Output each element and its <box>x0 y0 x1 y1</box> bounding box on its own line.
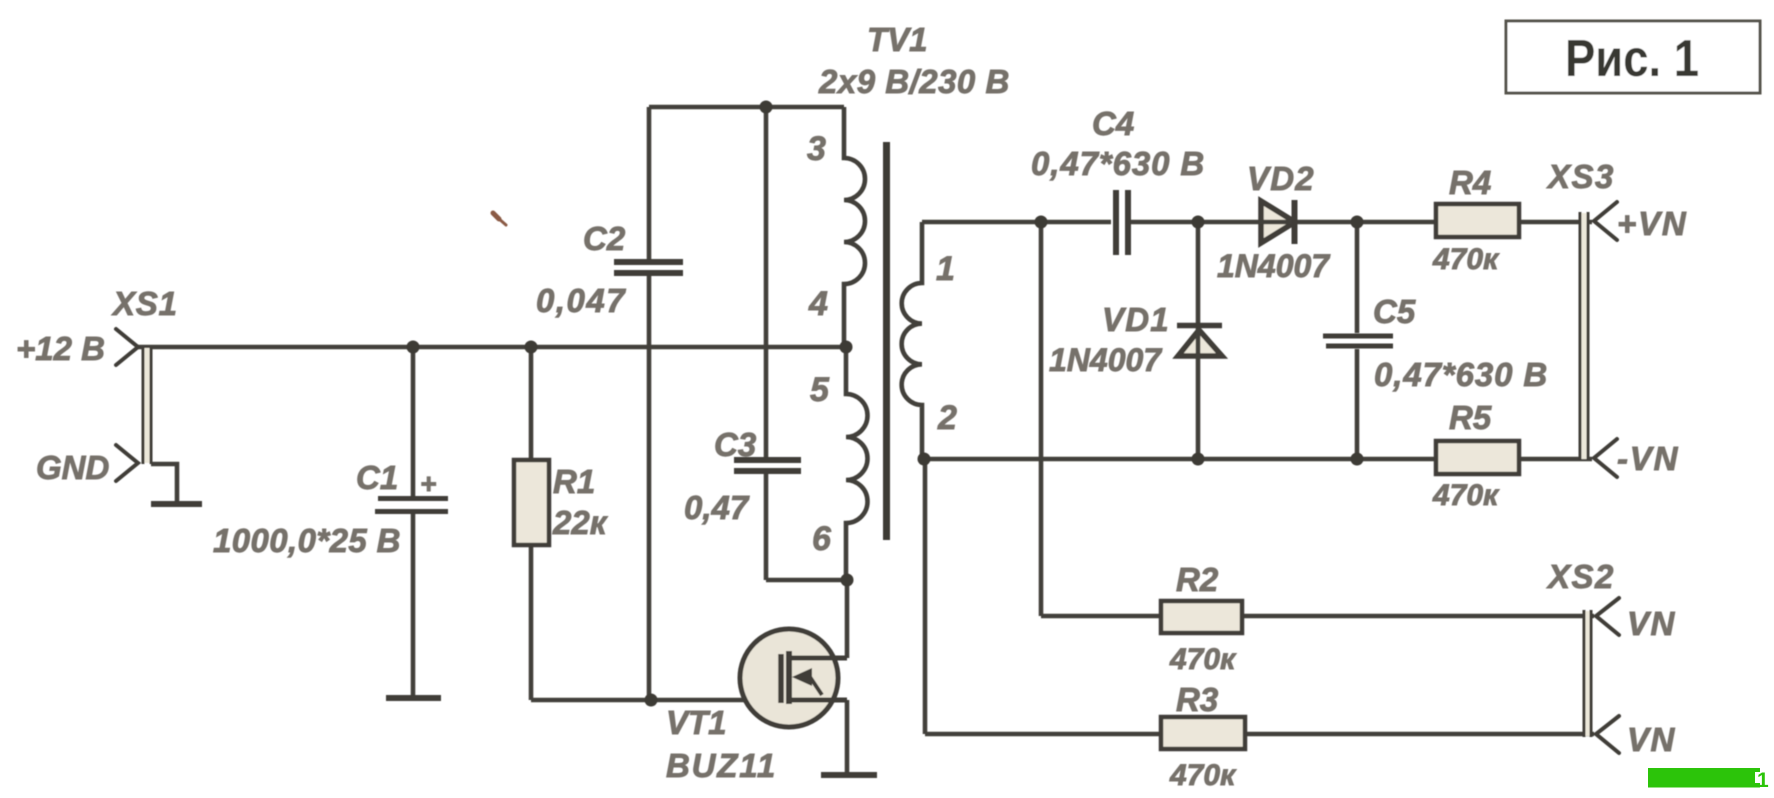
svg-text:2x9 В/230 В: 2x9 В/230 В <box>818 63 1010 100</box>
svg-text:470к: 470к <box>1169 759 1237 792</box>
svg-text:VD1: VD1 <box>1102 301 1170 338</box>
svg-text:2: 2 <box>937 399 957 437</box>
svg-text:5: 5 <box>810 371 830 409</box>
svg-text:1N4007: 1N4007 <box>1217 248 1331 284</box>
svg-text:0,047: 0,047 <box>536 282 626 319</box>
svg-text:XS1: XS1 <box>111 285 178 322</box>
svg-text:1N4007: 1N4007 <box>1049 342 1163 378</box>
svg-text:3: 3 <box>807 130 826 168</box>
svg-text:C1: C1 <box>356 459 398 496</box>
svg-text:C5: C5 <box>1373 293 1416 330</box>
svg-text:1: 1 <box>1757 769 1769 792</box>
svg-text:TV1: TV1 <box>867 21 928 58</box>
svg-text:Рис. 1: Рис. 1 <box>1565 30 1699 88</box>
svg-text:6: 6 <box>812 520 832 558</box>
svg-text:C2: C2 <box>583 220 626 257</box>
svg-text:XS3: XS3 <box>1546 158 1615 195</box>
svg-text:VN: VN <box>1627 721 1676 758</box>
svg-text:BUZ11: BUZ11 <box>666 747 777 784</box>
svg-text:1000,0*25 В: 1000,0*25 В <box>213 522 401 559</box>
svg-text:VN: VN <box>1627 605 1676 642</box>
svg-text:1: 1 <box>936 250 955 288</box>
svg-text:-VN: -VN <box>1617 440 1679 477</box>
svg-text:+: + <box>420 468 436 499</box>
svg-text:R3: R3 <box>1176 681 1218 718</box>
svg-text:+VN: +VN <box>1617 205 1688 242</box>
svg-text:GND: GND <box>36 449 109 486</box>
svg-text:VT1: VT1 <box>666 704 727 741</box>
svg-text:470к: 470к <box>1432 243 1500 276</box>
svg-text:0,47: 0,47 <box>684 489 750 526</box>
svg-text:C3: C3 <box>714 426 756 463</box>
svg-text:VD2: VD2 <box>1247 160 1315 197</box>
svg-text:470к: 470к <box>1432 479 1500 512</box>
svg-text:0,47*630 В: 0,47*630 В <box>1374 356 1548 393</box>
svg-text:XS2: XS2 <box>1546 558 1615 595</box>
svg-text:4: 4 <box>808 285 828 323</box>
svg-text:C4: C4 <box>1092 105 1134 142</box>
svg-text:+12 В: +12 В <box>16 330 105 367</box>
svg-text:470к: 470к <box>1169 643 1237 676</box>
svg-text:R2: R2 <box>1176 561 1219 598</box>
svg-text:R5: R5 <box>1449 399 1492 436</box>
svg-text:R1: R1 <box>553 463 595 500</box>
svg-text:R4: R4 <box>1449 164 1491 201</box>
svg-text:22к: 22к <box>552 504 609 541</box>
svg-text:0,47*630 В: 0,47*630 В <box>1031 145 1205 182</box>
